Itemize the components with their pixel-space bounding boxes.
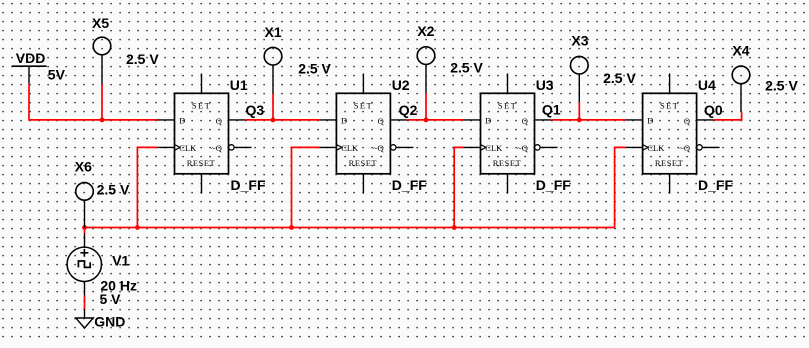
value label 20 Hz	[100, 277, 137, 293]
svg-text:5 V: 5 V	[100, 291, 122, 307]
svg-text:~Q: ~Q	[373, 143, 384, 153]
voltage probe X2	[417, 47, 435, 93]
svg-text:U1: U1	[230, 77, 248, 93]
label D_FF (U4)	[698, 177, 733, 193]
D flip-flop U4	[626, 74, 720, 194]
svg-text:D_FF: D_FF	[536, 177, 571, 193]
svg-text:~Q: ~Q	[517, 143, 528, 153]
svg-text:Q2: Q2	[399, 102, 418, 118]
svg-text:V1: V1	[112, 253, 129, 269]
wire probe X5 drop	[101, 84, 103, 120]
svg-text:SET: SET	[192, 100, 211, 110]
value label 5 V	[100, 291, 122, 307]
label X2	[417, 23, 434, 39]
label V1	[112, 253, 129, 269]
svg-text:D: D	[647, 116, 653, 126]
svg-text:D_FF: D_FF	[392, 177, 427, 193]
svg-text:SET: SET	[498, 100, 517, 110]
voltage probe X3	[571, 56, 589, 102]
wire probe X3 drop	[578, 102, 580, 120]
wire clock branch U1	[137, 147, 157, 227]
svg-text:2.5 V: 2.5 V	[450, 60, 483, 76]
label D_FF (U3)	[536, 177, 571, 193]
svg-text:U3: U3	[536, 77, 554, 93]
junction	[452, 225, 457, 230]
value label 2.5 V (X3)	[603, 70, 636, 86]
wire clock branch U4	[615, 147, 626, 227]
svg-text:D_FF: D_FF	[698, 177, 733, 193]
svg-text:Q: Q	[522, 116, 528, 126]
value label 2.5 V (X2)	[450, 60, 483, 76]
svg-text:RESET: RESET	[493, 158, 522, 168]
label GND	[94, 313, 125, 329]
node Q1	[542, 102, 561, 118]
junction	[424, 118, 429, 123]
node Q3	[246, 102, 265, 118]
svg-text:GND: GND	[94, 313, 125, 329]
svg-text:Q3: Q3	[246, 102, 265, 118]
label U1	[230, 77, 248, 93]
D flip-flop U2	[319, 74, 413, 194]
svg-text:CLK: CLK	[485, 143, 503, 153]
svg-text:~Q: ~Q	[211, 143, 222, 153]
label U3	[536, 77, 554, 93]
label X5	[92, 15, 109, 31]
label D_FF (U2)	[392, 177, 427, 193]
svg-text:SET: SET	[354, 100, 373, 110]
label X6	[75, 159, 92, 175]
junction	[271, 118, 276, 123]
svg-text:CLK: CLK	[647, 143, 665, 153]
svg-text:X3: X3	[571, 32, 588, 48]
svg-text:D: D	[341, 116, 347, 126]
svg-text:X6: X6	[75, 159, 92, 175]
wire net Q3	[246, 119, 320, 121]
junction	[100, 118, 105, 123]
ground	[76, 309, 93, 328]
svg-text:5V: 5V	[48, 67, 66, 83]
svg-text:Q1: Q1	[542, 102, 561, 118]
svg-text:Q0: Q0	[704, 102, 723, 118]
junction	[289, 225, 294, 230]
svg-text:2.5 V: 2.5 V	[298, 61, 331, 77]
svg-text:D: D	[485, 116, 491, 126]
D flip-flop U3	[464, 74, 558, 194]
wire net Q2	[408, 119, 464, 121]
wire probe X2 drop	[425, 93, 427, 120]
label U2	[392, 77, 410, 93]
label X3	[571, 32, 588, 48]
svg-text:2.5 V: 2.5 V	[97, 182, 130, 198]
wire net Q1	[552, 119, 626, 121]
voltage probe X5	[93, 37, 111, 84]
node Q0	[704, 102, 723, 118]
value label 5V	[48, 67, 66, 83]
svg-text:X1: X1	[265, 24, 282, 40]
svg-text:RESET: RESET	[655, 158, 684, 168]
D flip-flop U1	[158, 74, 252, 194]
svg-text:X5: X5	[92, 15, 109, 31]
junction	[577, 118, 582, 123]
label VDD	[16, 50, 46, 66]
label X1	[265, 24, 282, 40]
junction	[82, 225, 87, 230]
svg-text:VDD: VDD	[16, 50, 46, 66]
svg-text:CLK: CLK	[341, 143, 359, 153]
voltage probe X4	[732, 66, 750, 112]
power symbol VDD	[12, 66, 47, 84]
value label 2.5 V (X4)	[765, 78, 798, 94]
value label 2.5 V (X6)	[97, 182, 130, 198]
voltage probe X1	[264, 47, 282, 93]
svg-text:CLK: CLK	[179, 143, 197, 153]
svg-text:2.5 V: 2.5 V	[126, 51, 159, 67]
svg-text:X4: X4	[732, 42, 749, 58]
svg-text:Q: Q	[378, 116, 384, 126]
svg-text:~Q: ~Q	[679, 143, 690, 153]
junction	[135, 225, 140, 230]
svg-text:RESET: RESET	[349, 158, 378, 168]
svg-text:2.5 V: 2.5 V	[603, 70, 636, 86]
wire clock branch U2	[292, 147, 320, 227]
svg-text:U4: U4	[698, 77, 716, 93]
value label 2.5 V (X5)	[126, 51, 159, 67]
voltage probe X6	[76, 183, 94, 228]
wire probe X1 drop	[272, 93, 274, 120]
label X4	[732, 42, 749, 58]
node Q2	[399, 102, 418, 118]
svg-text:2.5 V: 2.5 V	[765, 78, 798, 94]
wire clock bus	[85, 227, 615, 229]
value label 2.5 V (X1)	[298, 61, 331, 77]
svg-text:Q: Q	[216, 116, 222, 126]
svg-text:D_FF: D_FF	[231, 177, 266, 193]
svg-text:X2: X2	[417, 23, 434, 39]
wire VDD to U1.D	[29, 84, 158, 120]
svg-text:D: D	[179, 116, 185, 126]
svg-text:U2: U2	[392, 77, 410, 93]
wire V1 to ground	[84, 296, 86, 310]
label D_FF (U1)	[231, 177, 266, 193]
label U4	[698, 77, 716, 93]
svg-text:Q: Q	[684, 116, 690, 126]
wire net Q0	[714, 112, 742, 120]
clock source V1	[67, 234, 101, 296]
svg-text:SET: SET	[660, 100, 679, 110]
wire probe X6 to V1	[84, 228, 86, 234]
wire clock branch U3	[454, 147, 463, 227]
svg-text:RESET: RESET	[187, 158, 216, 168]
